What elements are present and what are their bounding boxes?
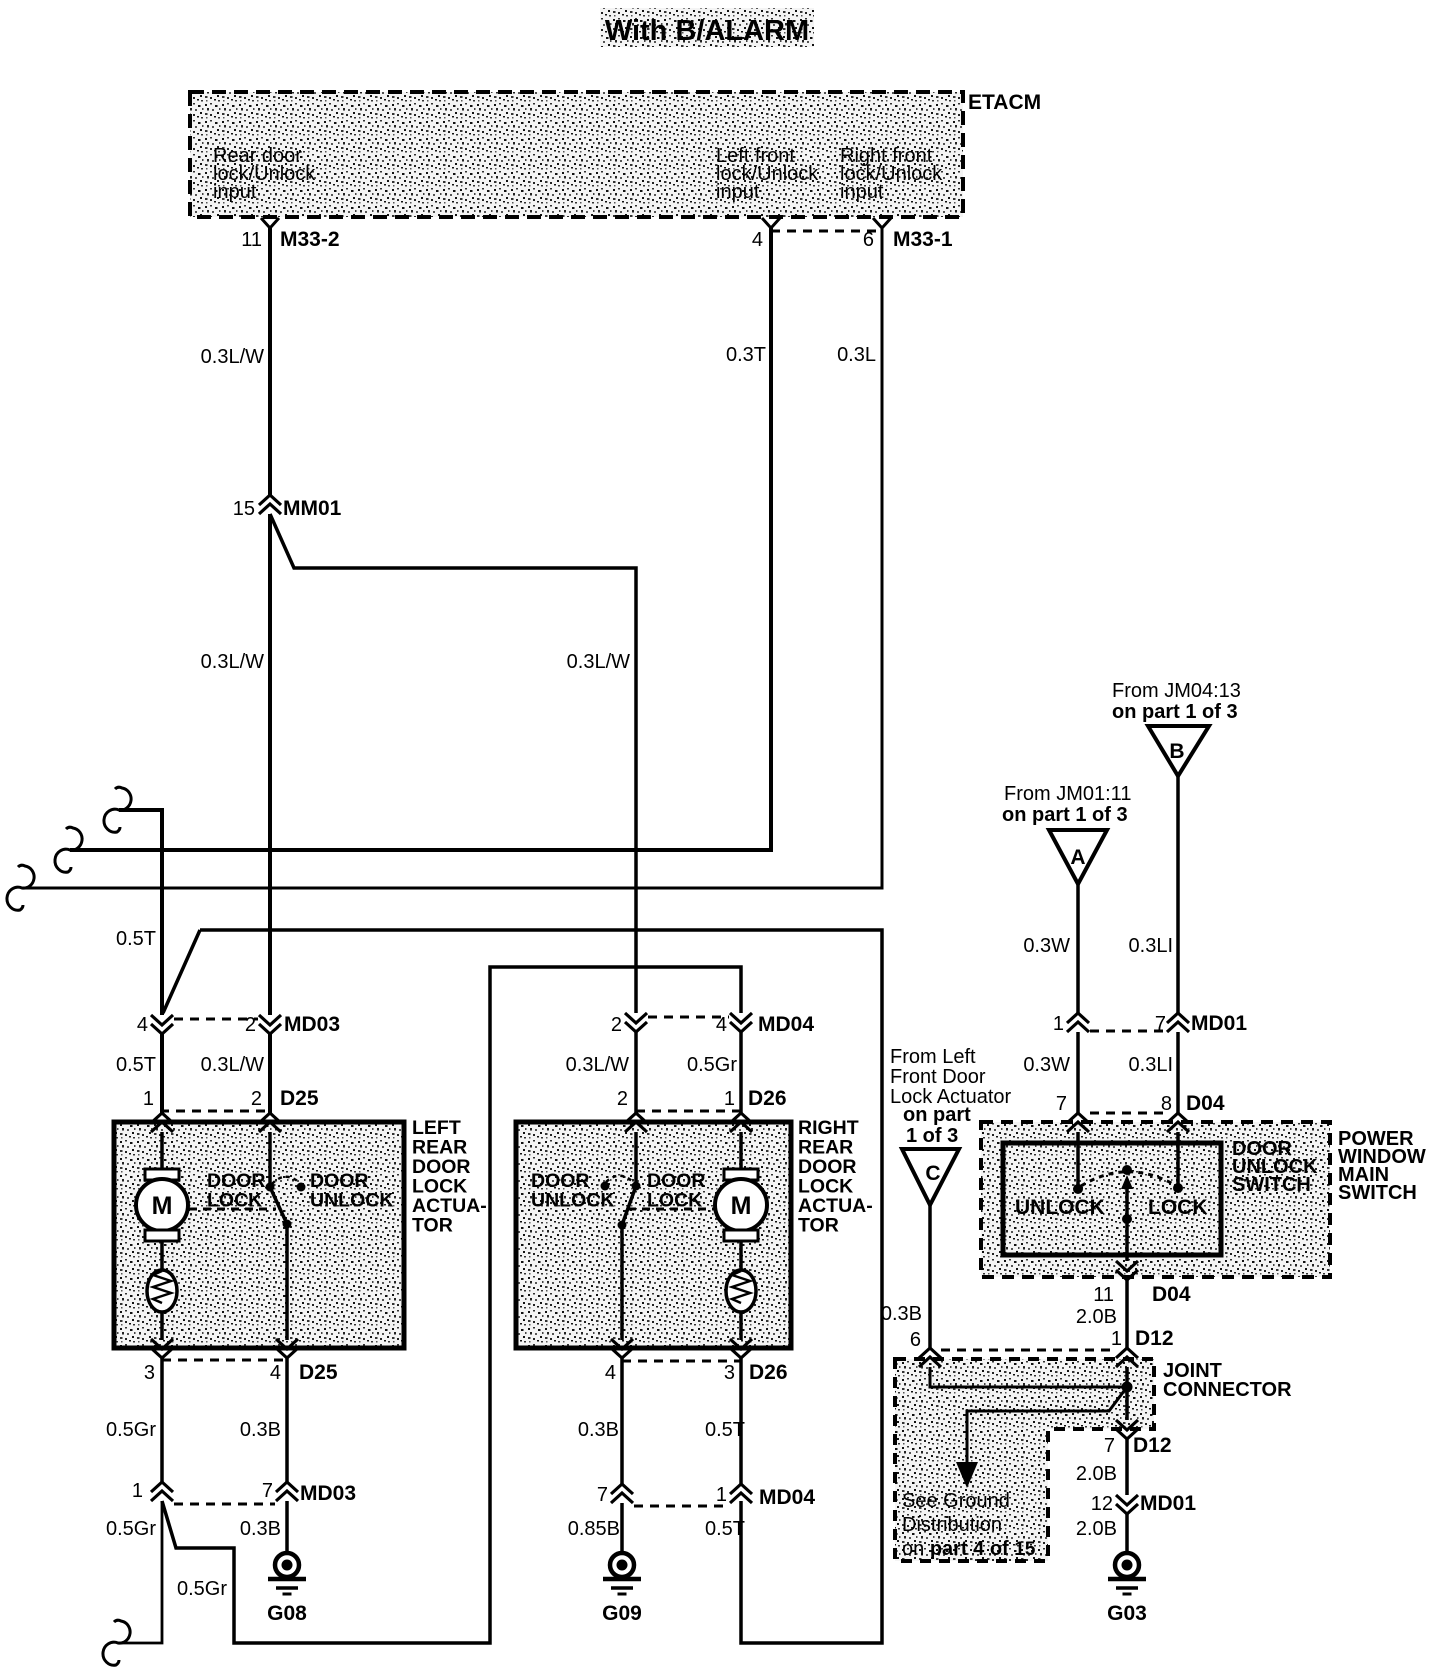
svg-text:on part 4 of 15: on part 4 of 15 xyxy=(902,1538,1036,1560)
door unlock switch box xyxy=(1003,1143,1221,1255)
wire motor to resistor xyxy=(160,1241,164,1271)
svg-text:Front Door: Front Door xyxy=(890,1066,986,1088)
svg-text:C: C xyxy=(925,1162,940,1185)
svg-text:3: 3 xyxy=(144,1362,155,1384)
switch contact dots right rear xyxy=(632,1182,641,1191)
svg-text:D25: D25 xyxy=(299,1361,338,1384)
svg-text:B: B xyxy=(1169,740,1184,763)
svg-text:0.5T: 0.5T xyxy=(116,928,156,950)
svg-text:D26: D26 xyxy=(748,1087,787,1110)
switch lever left rear xyxy=(270,1187,287,1224)
connector D12 dashed link xyxy=(941,1349,1116,1352)
svg-text:2.0B: 2.0B xyxy=(1076,1306,1117,1328)
wire 0.3B D26 pin4 to MD04 pin 7 xyxy=(620,1358,624,1484)
svg-text:D25: D25 xyxy=(280,1087,319,1110)
connector MD01 dashed link xyxy=(1090,1030,1166,1033)
svg-text:15: 15 xyxy=(233,498,255,520)
switch lever right rear xyxy=(622,1186,636,1225)
svg-text:1: 1 xyxy=(1111,1328,1122,1350)
svg-text:D04: D04 xyxy=(1186,1092,1225,1115)
branch to ground distribution note xyxy=(967,1387,1127,1464)
svg-text:MM01: MM01 xyxy=(283,497,342,520)
svg-text:G08: G08 xyxy=(267,1602,307,1625)
switch selector arrow xyxy=(1125,1187,1129,1219)
svg-text:MD04: MD04 xyxy=(759,1486,815,1509)
svg-text:input: input xyxy=(213,181,257,203)
svg-text:CONNECTOR: CONNECTOR xyxy=(1163,1379,1292,1401)
svg-text:0.3L/W: 0.3L/W xyxy=(566,1054,629,1076)
D26 pin 4 chevron xyxy=(611,1339,633,1358)
wire 0.3LI MD01 to D04 pin 8 xyxy=(1176,1032,1180,1113)
svg-text:12: 12 xyxy=(1091,1493,1113,1515)
svg-text:UNLOCK: UNLOCK xyxy=(531,1190,614,1212)
svg-text:2.0B: 2.0B xyxy=(1076,1518,1117,1540)
svg-text:7: 7 xyxy=(597,1484,608,1506)
svg-text:M: M xyxy=(731,1192,752,1220)
in-line connector MD03 pin 7 xyxy=(276,1482,298,1501)
wire 0.5T branch to right rear actuator via MD04 pin 1 xyxy=(163,930,882,1643)
svg-text:From JM01:11: From JM01:11 xyxy=(1004,783,1131,805)
joint connector internal wire from pin 6 xyxy=(930,1367,1127,1387)
in-line connector MD04 pin 2 xyxy=(625,1013,647,1032)
svg-text:1: 1 xyxy=(1053,1013,1064,1035)
svg-text:LOCK: LOCK xyxy=(1148,1196,1208,1219)
in-line connector MD01 pin 1 xyxy=(1067,1013,1089,1032)
wire 2.0B D04 pin 11 to D12 pin 1 xyxy=(1125,1280,1129,1348)
svg-text:7: 7 xyxy=(1104,1435,1115,1457)
in-line connector MD01 pin 7 xyxy=(1167,1013,1189,1032)
svg-text:0.3LI: 0.3LI xyxy=(1129,1054,1173,1076)
svg-text:on part 1 of 3: on part 1 of 3 xyxy=(1002,804,1128,826)
switch wire D25 pin2 xyxy=(268,1132,272,1187)
svg-text:0.3B: 0.3B xyxy=(240,1419,281,1441)
wire 0.3B MD03 pin7 to ground G08 xyxy=(285,1501,289,1553)
svg-text:1: 1 xyxy=(132,1480,143,1502)
wire D25 pin1 to motor xyxy=(160,1132,164,1170)
D04 pin 11 chevron xyxy=(1116,1261,1138,1280)
svg-text:Distribution: Distribution xyxy=(902,1514,1002,1536)
right rear door lock actuator box xyxy=(516,1122,791,1348)
ETACM module box xyxy=(190,92,963,217)
svg-text:7: 7 xyxy=(1056,1093,1067,1115)
svg-text:0.3LI: 0.3LI xyxy=(1129,935,1173,957)
wire 0.5Gr branch to bottom-left hook xyxy=(118,1501,162,1643)
switch dashed arc left rear xyxy=(272,1177,300,1184)
in-line connector MD04 pin 1 xyxy=(730,1484,752,1503)
svg-text:A: A xyxy=(1070,846,1085,869)
D26 pin 2 chevron xyxy=(625,1113,647,1132)
D26 pin 3 chevron xyxy=(730,1339,752,1358)
svg-text:MD01: MD01 xyxy=(1140,1492,1196,1515)
svg-text:MD03: MD03 xyxy=(300,1482,356,1505)
switch selector dashed arc xyxy=(1081,1172,1175,1186)
wire into lock contact xyxy=(1176,1132,1180,1188)
D25 pin 2 chevron xyxy=(259,1113,281,1132)
continuation hook hook of 0.5T wire xyxy=(104,787,131,832)
svg-text:1: 1 xyxy=(724,1088,735,1110)
svg-text:G03: G03 xyxy=(1107,1602,1147,1625)
mechanical link dashed right rear xyxy=(628,1208,714,1211)
switch wire D26 pin2 xyxy=(634,1132,638,1186)
junction dot xyxy=(1122,1382,1133,1393)
wire 0.3L/W from MM01 to MD03 pin 2 xyxy=(268,514,272,1015)
svg-text:3: 3 xyxy=(724,1362,735,1384)
svg-text:0.3L/W: 0.3L/W xyxy=(201,1054,264,1076)
wire 0.3B D25 pin4 to MD03 pin 7 xyxy=(285,1358,289,1482)
joint connector bus wire xyxy=(1125,1367,1129,1420)
svg-text:From JM04:13: From JM04:13 xyxy=(1112,680,1241,702)
svg-text:0.5T: 0.5T xyxy=(116,1054,156,1076)
wire 0.3L/W branch from MM01 to MD04 pin 2 xyxy=(270,514,636,1013)
motor M right rear xyxy=(724,1169,758,1180)
D26 pin 1 chevron xyxy=(730,1113,752,1132)
svg-text:MD03: MD03 xyxy=(284,1013,340,1036)
svg-text:0.3W: 0.3W xyxy=(1023,935,1070,957)
wire 0.85B MD04 pin7 to ground G09 xyxy=(620,1503,624,1553)
D25 pin 3 chevron xyxy=(151,1339,173,1358)
connector MD04 dashed link bottom xyxy=(634,1505,729,1508)
svg-text:SWITCH: SWITCH xyxy=(1338,1182,1417,1204)
connector MD03 dashed link top xyxy=(174,1018,258,1021)
svg-text:1: 1 xyxy=(716,1484,727,1506)
D12 pin 1 chevron xyxy=(1116,1348,1138,1367)
svg-text:1 of 3: 1 of 3 xyxy=(906,1125,958,1147)
continuation hook hook of 0.3L wire xyxy=(7,865,34,910)
svg-text:0.85B: 0.85B xyxy=(568,1518,620,1540)
svg-text:D26: D26 xyxy=(749,1361,788,1384)
svg-text:input: input xyxy=(840,181,884,203)
svg-text:0.3W: 0.3W xyxy=(1023,1054,1070,1076)
svg-text:0.3L/W: 0.3L/W xyxy=(201,346,264,368)
svg-text:on part 1 of 3: on part 1 of 3 xyxy=(1112,701,1238,723)
connector D26 dashed link top xyxy=(636,1110,741,1113)
svg-text:2: 2 xyxy=(617,1088,628,1110)
svg-text:7: 7 xyxy=(262,1480,273,1502)
wire MD03 pin4 to D25 pin 1 xyxy=(160,1034,164,1113)
in-line connector MM01 pin 15 xyxy=(259,495,281,514)
wire 0.5Gr branch to right rear actuator xyxy=(162,967,741,1643)
svg-text:G09: G09 xyxy=(602,1602,642,1625)
connector D26 dashed link bottom xyxy=(622,1360,741,1363)
switch contact dots left rear xyxy=(266,1183,275,1192)
wire 2.0B D12 pin 7 to MD01 pin 12 xyxy=(1125,1439,1129,1495)
in-line connector MD04 pin 4 xyxy=(730,1013,752,1032)
svg-text:4: 4 xyxy=(137,1014,148,1036)
svg-text:UNLOCK: UNLOCK xyxy=(1015,1196,1105,1219)
svg-text:input: input xyxy=(716,181,760,203)
svg-text:0.5Gr: 0.5Gr xyxy=(177,1578,227,1600)
wire into unlock contact xyxy=(1076,1132,1080,1189)
off-page connector B xyxy=(1148,726,1209,776)
ETACM pin 11 fork (M33-2) xyxy=(261,218,279,228)
continuation hook hook of 0.3T wire xyxy=(55,827,82,872)
joint connector and see-ground dashed region xyxy=(895,1359,1154,1561)
resistor coil left rear xyxy=(147,1270,177,1312)
mechanical link dashed left rear xyxy=(189,1208,276,1211)
svg-text:0.3B: 0.3B xyxy=(578,1419,619,1441)
connector D04 dashed link xyxy=(1090,1112,1166,1115)
svg-text:4: 4 xyxy=(270,1362,281,1384)
svg-text:UNLOCK: UNLOCK xyxy=(310,1190,393,1212)
svg-text:4: 4 xyxy=(716,1014,727,1036)
wire lever to D25 pin 4 xyxy=(285,1224,289,1340)
ground symbol G09 xyxy=(610,1553,634,1577)
svg-text:M: M xyxy=(152,1192,173,1220)
connector MD04 dashed link top xyxy=(648,1016,729,1019)
svg-text:0.5T: 0.5T xyxy=(705,1419,745,1441)
wire resistor to D25 pin 3 xyxy=(160,1312,164,1340)
svg-text:M33-1: M33-1 xyxy=(893,228,953,251)
wire lever to D26 pin 4 xyxy=(620,1225,624,1340)
svg-text:ETACM: ETACM xyxy=(968,91,1041,114)
wire switch common to D04 pin 11 xyxy=(1125,1219,1129,1261)
wire 0.5T from continuation hook down to MD03 pin 4 xyxy=(119,810,162,1015)
wire D26 pin1 to motor right xyxy=(739,1132,743,1170)
D04 pin 7 chevron xyxy=(1067,1113,1089,1132)
wire 0.3W from A to MD01 pin 1 xyxy=(1076,884,1080,1013)
svg-text:0.5T: 0.5T xyxy=(705,1518,745,1540)
svg-text:11: 11 xyxy=(1093,1284,1114,1306)
svg-text:D04: D04 xyxy=(1152,1283,1191,1306)
ground symbol G03 xyxy=(1115,1553,1139,1577)
svg-text:0.3L/W: 0.3L/W xyxy=(201,651,264,673)
svg-text:0.3L/W: 0.3L/W xyxy=(567,651,630,673)
resistor coil right rear xyxy=(726,1270,756,1312)
svg-text:TOR: TOR xyxy=(412,1215,453,1237)
svg-text:M33-2: M33-2 xyxy=(280,228,340,251)
ETACM pin 6 fork (M33-1) xyxy=(873,218,891,228)
D04 pin 8 chevron xyxy=(1167,1113,1189,1132)
svg-text:0.3L: 0.3L xyxy=(837,344,876,366)
motor M left rear xyxy=(145,1169,179,1180)
connector M33-1 dashed link xyxy=(771,230,882,233)
svg-text:D12: D12 xyxy=(1133,1434,1172,1457)
wire 0.3L from M33-1 pin 6 to continuation hook xyxy=(22,228,882,888)
svg-text:on part: on part xyxy=(903,1104,971,1126)
svg-text:D12: D12 xyxy=(1135,1327,1174,1350)
svg-text:With B/ALARM: With B/ALARM xyxy=(605,15,809,47)
svg-text:From Left: From Left xyxy=(890,1046,976,1068)
wire 0.3B from C to D12 pin 6 xyxy=(928,1205,932,1348)
D25 pin 4 chevron xyxy=(276,1339,298,1358)
wire MD04 pin4 to D26 pin 1 xyxy=(739,1032,743,1113)
in-line connector MD03 pin 4 xyxy=(151,1015,173,1034)
svg-text:0.5Gr: 0.5Gr xyxy=(687,1054,737,1076)
svg-text:0.5Gr: 0.5Gr xyxy=(106,1518,156,1540)
wire MD04 pin2 to D26 pin 2 xyxy=(634,1032,638,1113)
left rear door lock actuator box xyxy=(114,1122,404,1348)
svg-text:0.3T: 0.3T xyxy=(726,344,766,366)
svg-text:See Ground: See Ground xyxy=(902,1490,1010,1512)
wire MD03 pin2 to D25 pin 2 xyxy=(268,1034,272,1113)
ground symbol G08 xyxy=(275,1553,299,1577)
svg-text:7: 7 xyxy=(1155,1013,1166,1035)
svg-text:2: 2 xyxy=(245,1014,256,1036)
switch dashed arc right rear xyxy=(606,1176,634,1183)
D12 pin 7 chevron xyxy=(1116,1420,1138,1439)
svg-text:MD01: MD01 xyxy=(1191,1012,1247,1035)
D25 pin 1 chevron xyxy=(151,1113,173,1132)
D12 pin 6 chevron xyxy=(919,1348,941,1367)
title highlight block xyxy=(600,8,814,47)
in-line connector MD03 pin 2 xyxy=(259,1015,281,1034)
svg-text:6: 6 xyxy=(910,1329,921,1351)
power window main switch box xyxy=(981,1122,1330,1277)
svg-text:0.5Gr: 0.5Gr xyxy=(106,1419,156,1441)
svg-text:2: 2 xyxy=(611,1014,622,1036)
off-page connector A xyxy=(1049,830,1107,884)
svg-text:11: 11 xyxy=(241,229,262,251)
wire 0.3L/W from M33-2 pin 11 to MM01 pin 15 xyxy=(268,228,272,495)
in-line connector MD03 pin 1 xyxy=(151,1482,173,1501)
in-line connector MD04 pin 7 xyxy=(611,1484,633,1503)
wire 0.5T D26 pin3 to MD04 pin 1 xyxy=(739,1358,743,1484)
continuation hook hook of 0.5Gr wire xyxy=(103,1620,130,1665)
svg-text:2.0B: 2.0B xyxy=(1076,1463,1117,1485)
wire 0.3T from M33-1 pin 4 to continuation hook xyxy=(70,228,771,850)
wire 0.5Gr D25 pin3 to MD03 pin 1 xyxy=(160,1358,164,1482)
svg-text:4: 4 xyxy=(605,1362,616,1384)
in-line connector MD01 pin 12 xyxy=(1116,1495,1138,1514)
connector MD03 dashed link bottom xyxy=(174,1503,275,1506)
svg-text:2: 2 xyxy=(251,1088,262,1110)
ETACM pin 4 fork (M33-1) xyxy=(762,218,780,228)
wire 0.3W MD01 to D04 pin 7 xyxy=(1076,1032,1080,1113)
svg-text:0.3B: 0.3B xyxy=(240,1518,281,1540)
svg-text:SWITCH: SWITCH xyxy=(1232,1174,1311,1196)
wire 0.3LI from B to MD01 pin 7 xyxy=(1176,776,1180,1013)
wire resistor to D26 pin 3 xyxy=(739,1312,743,1340)
connector D25 dashed link bottom xyxy=(162,1359,287,1362)
wire 2.0B MD01 pin 12 to ground G03 xyxy=(1125,1514,1129,1553)
svg-text:4: 4 xyxy=(752,229,763,251)
svg-text:MD04: MD04 xyxy=(758,1013,814,1036)
svg-text:0.3B: 0.3B xyxy=(881,1303,922,1325)
svg-text:TOR: TOR xyxy=(798,1215,839,1237)
connector D25 dashed link top xyxy=(160,1110,270,1113)
svg-text:1: 1 xyxy=(143,1088,154,1110)
wire motor to resistor right xyxy=(739,1241,743,1271)
